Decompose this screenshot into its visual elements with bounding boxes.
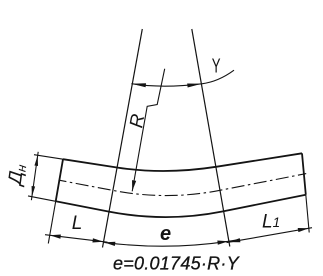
svg-text:e: e [160,223,171,245]
pipe centerline dash-dot [59,174,307,196]
svg-text:Y: Y [212,55,221,77]
wire right radius line B [192,29,230,247]
L1 dimension line [227,228,313,243]
Dn bottom extension line [28,196,56,201]
Dn dimension line [31,152,38,200]
R arrow [130,180,136,192]
angle arc right arrow [187,82,202,88]
pipe top wall [63,153,302,171]
L arrow left [49,233,60,238]
angle arc left arrow [131,82,146,88]
pipe left end edge [56,159,63,201]
Dn arrow up [34,155,39,166]
e arrow right [217,239,228,244]
svg-text:L1: L1 [262,212,280,233]
svg-text:L: L [72,213,83,234]
R dimension line with jog [132,69,165,192]
Dn arrow down [30,186,35,197]
e dimension arc [104,239,240,246]
extension line below right edge for L1 dim [306,195,309,233]
L1 arrow right [298,226,310,232]
L arrow right [92,238,103,243]
svg-text:e=0.01745·R·Y: e=0.01745·R·Y [113,254,241,274]
Dn top extension line [34,155,63,160]
e arrow left [104,240,115,246]
pipe right end edge [302,153,306,194]
L dimension line [45,235,108,243]
L1 arrow left [229,238,241,244]
extension line below left edge for L dim [48,201,55,243]
angle dimension arc [131,70,234,86]
wire left radius line A [103,29,143,248]
pipe bottom wall [56,195,306,217]
